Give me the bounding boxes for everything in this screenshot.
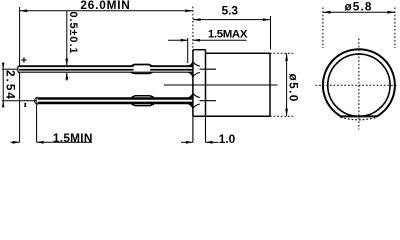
hidden arc below flat	[341, 117, 377, 119]
top lead crimp bump	[134, 65, 151, 71]
svg-text:1.5MIN: 1.5MIN	[53, 131, 93, 145]
svg-text:ø5.0: ø5.0	[286, 74, 300, 103]
dimension 1.5MIN	[11, 141, 20, 143]
bottom lead (cathode)	[37, 97, 193, 104]
bottom lead crimp bump	[132, 96, 155, 98]
svg-text:1.5MAX: 1.5MAX	[208, 28, 248, 40]
front view centerlines	[358, 39, 360, 130]
top lead (anode)	[18, 65, 193, 72]
svg-text:+: +	[21, 55, 27, 67]
svg-text:26.0MIN: 26.0MIN	[80, 0, 130, 12]
internal lead stub top	[200, 68, 217, 70]
extension line seating plane x=192.9 (dashed, shared)	[192, 7, 194, 50]
dimension 5.3	[193, 19, 271, 21]
bottom lead crimp flare at flange	[187, 92, 193, 98]
svg-text:0.5±0.1: 0.5±0.1	[67, 12, 79, 55]
body centerline	[164, 84, 278, 86]
dimension 26.0MIN line	[20, 10, 193, 12]
dimension 1.5MAX	[187, 38, 189, 63]
front view outer circle ø5.8 with flat	[323, 49, 395, 116]
svg-text:1.0: 1.0	[219, 132, 236, 146]
top lead crimp flare at flange	[187, 61, 193, 67]
dimension ø5.8	[322, 8, 324, 49]
front view inner circle ø5.0	[328, 54, 390, 116]
dimension 2.54 extension lines	[2, 68, 18, 70]
extension line bottom lead tip x=36.6	[36, 98, 38, 143]
svg-text:ø5.8: ø5.8	[344, 0, 372, 13]
svg-text:5.3: 5.3	[222, 3, 239, 17]
dimension 0.5±0.1 leader lines	[66, 11, 68, 66]
flange (rim)	[192, 50, 194, 117]
svg-text:2.54: 2.54	[3, 70, 17, 101]
small tick artifact	[24, 103, 26, 107]
body (cylinder side view)	[206, 52, 271, 54]
internal lead stub bottom	[200, 100, 217, 102]
extension line left (lead tip, 26.0MIN / 1.5MIN)	[19, 7, 21, 142]
dimension 2.54 line and arrows	[2, 63, 4, 107]
dimension 1.0	[181, 141, 193, 143]
dimension ø5.0	[270, 52, 294, 54]
